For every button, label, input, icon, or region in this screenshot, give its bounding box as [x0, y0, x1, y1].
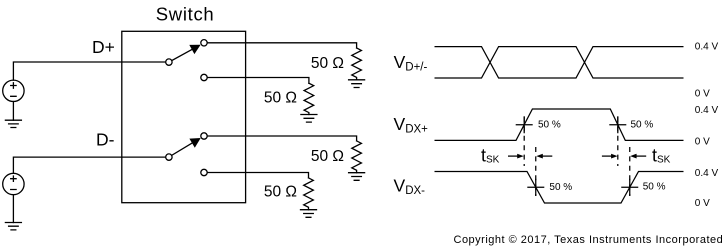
- svg-text:Switch: Switch: [156, 4, 215, 25]
- dashed line at VDX+ rising 50%: [523, 117, 525, 166]
- wire V1 top to switch pole: [13, 62, 165, 80]
- tSK left arrow right-pointing: [508, 155, 518, 157]
- marker 50% cross on VDX- falling edge: [527, 179, 544, 196]
- svg-text:D-: D-: [96, 130, 115, 150]
- svg-text:D+: D+: [92, 37, 115, 57]
- svg-text:50 %: 50 %: [643, 182, 666, 193]
- ground R2: [301, 115, 317, 123]
- tSK right arrow left-pointing: [636, 155, 646, 157]
- svg-text:50 Ω: 50 Ω: [311, 148, 344, 165]
- ground R4: [301, 210, 317, 218]
- wire throw4 to resistor R4: [207, 173, 308, 178]
- ground R1: [349, 80, 365, 88]
- ground R3: [349, 173, 365, 181]
- marker 50% cross on VDX+ falling edge: [609, 116, 626, 133]
- switch SW2 blade: [172, 142, 194, 155]
- svg-text:50 Ω: 50 Ω: [264, 89, 297, 106]
- svg-text:0 V: 0 V: [695, 198, 710, 209]
- wire throw1 to resistor R1: [207, 43, 356, 48]
- waveform VDX+: [435, 109, 684, 140]
- waveform VD+/- line B: [435, 47, 684, 78]
- dashed line at VDX+ falling 50%: [617, 117, 619, 166]
- voltage source V2: [3, 173, 24, 194]
- dashed line at VDX- falling 50%: [535, 147, 537, 196]
- marker 50% cross on VDX+ rising edge: [516, 116, 533, 133]
- wire throw2 to resistor R2: [207, 78, 309, 84]
- svg-text:50 %: 50 %: [538, 120, 561, 131]
- voltage source V1: [3, 80, 24, 101]
- svg-text:Copyright © 2017, Texas Instru: Copyright © 2017, Texas Instruments Inco…: [454, 234, 724, 246]
- switch SW2 arrowhead: [189, 138, 200, 148]
- svg-text:0.4 V: 0.4 V: [695, 105, 719, 116]
- ground G2: [5, 223, 21, 230]
- dashed line at VDX- rising 50%: [629, 147, 631, 196]
- svg-text:50 Ω: 50 Ω: [311, 55, 344, 72]
- svg-text:0.4 V: 0.4 V: [695, 168, 719, 179]
- waveform VDX-: [435, 172, 684, 204]
- switch SW1 arrowhead: [189, 45, 200, 54]
- svg-text:50 Ω: 50 Ω: [264, 183, 297, 200]
- svg-text:0 V: 0 V: [695, 89, 710, 100]
- svg-text:50 %: 50 %: [631, 119, 654, 130]
- resistor R1: [352, 48, 362, 80]
- marker 50% cross on VDX- rising edge: [621, 179, 638, 196]
- switch SW1 blade: [172, 49, 194, 61]
- wire throw3 to resistor R3: [207, 136, 356, 141]
- tSK left arrow left-pointing: [542, 155, 552, 157]
- switch SW1 pole contact: [166, 59, 172, 65]
- ground G1: [5, 120, 21, 127]
- resistor R3: [352, 141, 362, 173]
- tSK right arrow right-pointing: [602, 155, 612, 157]
- switch SW2 throw contact 4: [201, 169, 207, 175]
- wire V2 bottom to ground: [12, 195, 14, 223]
- svg-text:0.4 V: 0.4 V: [695, 42, 719, 53]
- switch SW1 throw contact 2: [201, 74, 207, 80]
- svg-text:0 V: 0 V: [695, 136, 710, 147]
- wire V2 top to switch pole: [13, 157, 165, 173]
- svg-text:50 %: 50 %: [549, 182, 572, 193]
- switch SW2 pole contact: [166, 154, 172, 160]
- switch SW1 throw contact 1: [201, 40, 207, 46]
- waveform VD+/- line A: [435, 47, 684, 78]
- wire V1 bottom to ground: [12, 102, 14, 121]
- resistor R2: [304, 83, 314, 114]
- switch SW2 throw contact 3: [201, 133, 207, 139]
- switch box: [122, 31, 246, 202]
- resistor R4: [304, 178, 314, 210]
